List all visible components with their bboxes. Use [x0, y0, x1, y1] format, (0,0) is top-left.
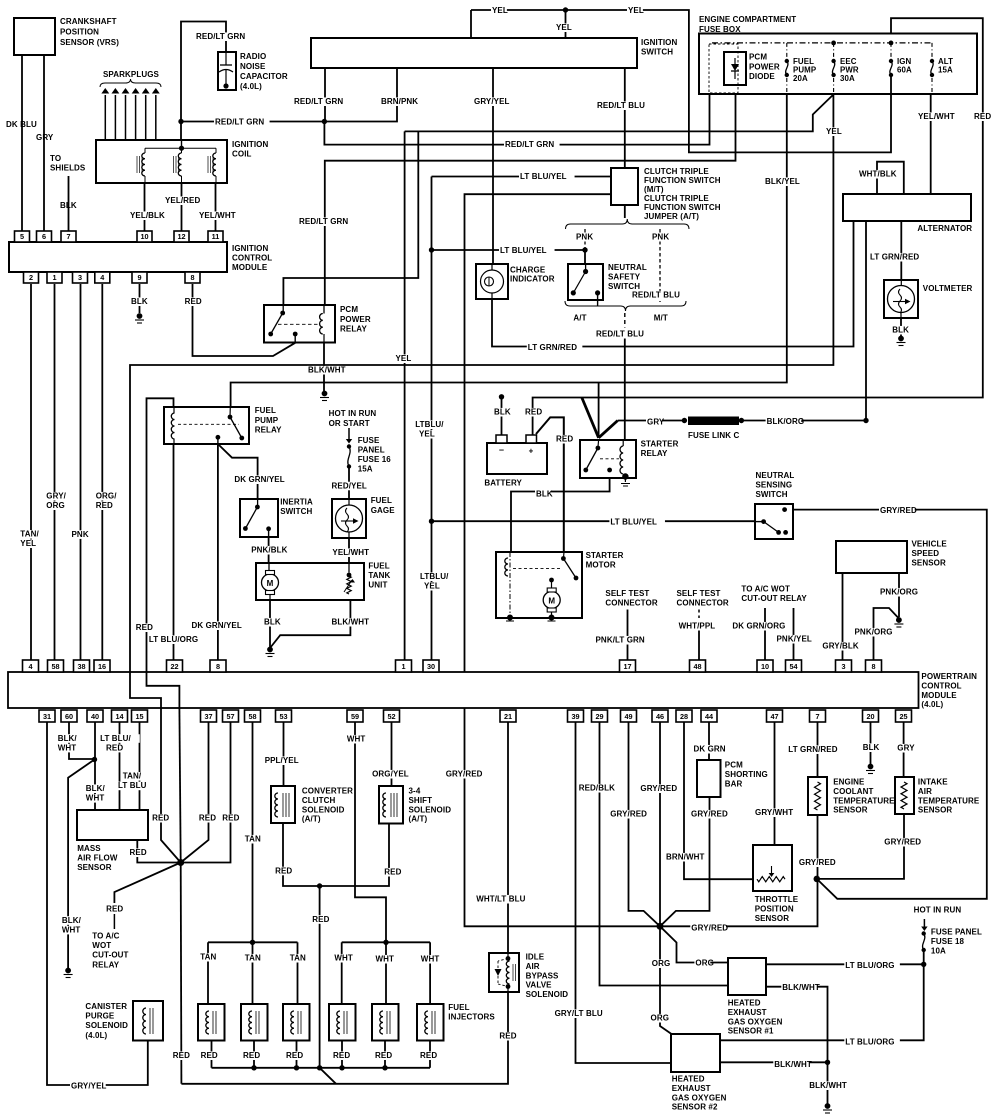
svg-text:YEL: YEL	[20, 539, 36, 548]
svg-text:RELAY: RELAY	[255, 426, 282, 435]
svg-text:RELAY: RELAY	[340, 325, 367, 334]
svg-text:7: 7	[815, 712, 819, 721]
svg-text:GRY/WHT: GRY/WHT	[755, 808, 793, 817]
svg-text:8: 8	[190, 273, 194, 282]
svg-text:49: 49	[624, 712, 632, 721]
svg-text:(4.0L): (4.0L)	[240, 82, 262, 91]
svg-text:COIL: COIL	[232, 150, 252, 159]
svg-text:10A: 10A	[931, 946, 946, 955]
svg-text:GRY/RED: GRY/RED	[640, 784, 677, 793]
svg-text:(A/T): (A/T)	[302, 815, 321, 824]
svg-text:PNK: PNK	[576, 233, 593, 242]
svg-text:SOLENOID: SOLENOID	[526, 990, 569, 999]
svg-text:6: 6	[42, 232, 46, 241]
svg-text:BLK: BLK	[536, 490, 553, 499]
svg-text:SOLENOID: SOLENOID	[85, 1021, 128, 1030]
svg-text:LT GRN/RED: LT GRN/RED	[528, 343, 577, 352]
svg-text:RED: RED	[222, 814, 239, 823]
svg-text:IDLE: IDLE	[526, 953, 545, 962]
svg-text:POSITION: POSITION	[755, 904, 794, 913]
svg-text:SWITCH: SWITCH	[641, 48, 673, 57]
svg-text:TO A/C WOT: TO A/C WOT	[741, 585, 790, 594]
svg-text:ORG: ORG	[46, 501, 65, 510]
svg-text:PNK: PNK	[72, 530, 89, 539]
svg-text:37: 37	[204, 712, 212, 721]
svg-text:M: M	[548, 596, 555, 605]
svg-text:ENGINE: ENGINE	[833, 778, 865, 787]
svg-text:AIR FLOW: AIR FLOW	[77, 853, 118, 862]
svg-text:VOLTMETER: VOLTMETER	[923, 284, 973, 293]
svg-text:7: 7	[66, 232, 70, 241]
svg-text:LT BLU: LT BLU	[118, 781, 147, 790]
svg-text:RED/LT BLU: RED/LT BLU	[596, 330, 644, 339]
svg-text:3-4: 3-4	[409, 787, 421, 796]
svg-text:BLK/: BLK/	[62, 916, 82, 925]
svg-text:17: 17	[623, 662, 631, 671]
svg-text:NEUTRAL: NEUTRAL	[756, 471, 795, 480]
svg-text:ORG: ORG	[652, 959, 671, 968]
svg-text:22: 22	[170, 662, 178, 671]
svg-text:RED: RED	[384, 868, 401, 877]
svg-text:2: 2	[29, 273, 33, 282]
svg-text:FUNCTION SWITCH: FUNCTION SWITCH	[644, 176, 721, 185]
svg-text:SENSOR: SENSOR	[912, 559, 947, 568]
svg-text:RED: RED	[201, 1051, 218, 1060]
svg-text:SELF TEST: SELF TEST	[605, 589, 649, 598]
svg-text:SENSOR #2: SENSOR #2	[672, 1103, 718, 1112]
svg-text:3: 3	[841, 662, 845, 671]
svg-text:LT BLU/: LT BLU/	[100, 734, 131, 743]
svg-text:SOLENOID: SOLENOID	[409, 805, 452, 814]
svg-text:RED: RED	[173, 1051, 190, 1060]
svg-text:SHORTING: SHORTING	[725, 770, 768, 779]
svg-text:BLK: BLK	[494, 408, 511, 417]
svg-text:M: M	[267, 579, 274, 588]
svg-text:LT BLU/YEL: LT BLU/YEL	[520, 172, 567, 181]
svg-text:15: 15	[135, 712, 143, 721]
svg-text:SAFETY: SAFETY	[608, 273, 641, 282]
svg-text:GRY/RED: GRY/RED	[610, 810, 647, 819]
svg-text:TAN: TAN	[245, 835, 261, 844]
svg-text:PCM: PCM	[340, 305, 358, 314]
svg-text:9: 9	[137, 273, 141, 282]
svg-text:YEL: YEL	[419, 430, 435, 439]
svg-text:YEL/WHT: YEL/WHT	[199, 211, 236, 220]
svg-text:52: 52	[387, 712, 395, 721]
svg-text:RELAY: RELAY	[92, 960, 119, 969]
svg-text:PURGE: PURGE	[85, 1012, 115, 1021]
svg-text:20: 20	[866, 712, 874, 721]
svg-text:RED: RED	[275, 866, 292, 875]
svg-text:BLK/YEL: BLK/YEL	[765, 177, 800, 186]
svg-text:RED: RED	[286, 1051, 303, 1060]
svg-text:BLK/ORG: BLK/ORG	[767, 417, 805, 426]
svg-text:DK GRN/YEL: DK GRN/YEL	[234, 475, 284, 484]
svg-text:CONTROL: CONTROL	[232, 254, 272, 263]
svg-text:SENSING: SENSING	[756, 481, 793, 490]
svg-text:BLK/: BLK/	[58, 734, 78, 743]
svg-text:VEHICLE: VEHICLE	[912, 540, 948, 549]
svg-text:RED: RED	[333, 1051, 350, 1060]
svg-text:3: 3	[78, 273, 82, 282]
svg-text:54: 54	[789, 662, 798, 671]
svg-text:RED/LT GRN: RED/LT GRN	[505, 140, 554, 149]
svg-text:RED: RED	[556, 435, 573, 444]
svg-text:BLK: BLK	[863, 743, 880, 752]
svg-text:–: –	[499, 445, 504, 455]
svg-text:WHT: WHT	[62, 925, 81, 934]
svg-text:CLUTCH: CLUTCH	[302, 796, 336, 805]
svg-text:CUT-OUT: CUT-OUT	[92, 951, 128, 960]
svg-text:YEL/WHT: YEL/WHT	[332, 548, 369, 557]
svg-text:ALTERNATOR: ALTERNATOR	[917, 224, 972, 233]
svg-text:GRY/LT BLU: GRY/LT BLU	[555, 1009, 603, 1018]
svg-text:RED: RED	[152, 814, 169, 823]
svg-text:BLK: BLK	[60, 201, 77, 210]
svg-text:10: 10	[140, 232, 148, 241]
svg-text:20A: 20A	[793, 74, 808, 83]
svg-text:53: 53	[279, 712, 287, 721]
svg-text:GRY/YEL: GRY/YEL	[474, 97, 510, 106]
svg-text:SENSOR: SENSOR	[918, 806, 953, 815]
svg-text:CONTROL: CONTROL	[921, 681, 961, 690]
svg-text:LTBLU/: LTBLU/	[415, 420, 444, 429]
svg-text:TAN: TAN	[290, 954, 306, 963]
svg-text:IGNITION: IGNITION	[641, 38, 677, 47]
svg-text:POWER: POWER	[340, 315, 371, 324]
svg-text:CAPACITOR: CAPACITOR	[240, 72, 288, 81]
svg-text:SHIELDS: SHIELDS	[50, 164, 86, 173]
svg-text:WHT/LT BLU: WHT/LT BLU	[476, 895, 525, 904]
svg-text:PNK/LT GRN: PNK/LT GRN	[596, 636, 645, 645]
svg-text:THROTTLE: THROTTLE	[755, 895, 799, 904]
svg-text:28: 28	[680, 712, 688, 721]
svg-text:CONNECTOR: CONNECTOR	[677, 598, 729, 607]
svg-text:40: 40	[91, 712, 99, 721]
svg-text:58: 58	[248, 712, 256, 721]
svg-text:RED: RED	[199, 814, 216, 823]
svg-text:WHT: WHT	[376, 955, 395, 964]
svg-text:BLK: BLK	[131, 297, 148, 306]
svg-text:BYPASS: BYPASS	[526, 971, 559, 980]
svg-text:LT BLU/YEL: LT BLU/YEL	[610, 518, 657, 527]
svg-text:WOT: WOT	[92, 941, 111, 950]
svg-text:SENSOR: SENSOR	[833, 806, 868, 815]
svg-text:PANEL: PANEL	[358, 446, 385, 455]
svg-text:MASS: MASS	[77, 844, 101, 853]
svg-text:SENSOR: SENSOR	[77, 863, 112, 872]
svg-text:M/T: M/T	[654, 314, 668, 323]
svg-text:COOLANT: COOLANT	[833, 787, 873, 796]
svg-text:EXHAUST: EXHAUST	[672, 1084, 711, 1093]
svg-text:POWERTRAIN: POWERTRAIN	[921, 672, 977, 681]
svg-text:CLUTCH TRIPLE: CLUTCH TRIPLE	[644, 167, 709, 176]
svg-text:GRY/RED: GRY/RED	[884, 838, 921, 847]
svg-text:YEL: YEL	[492, 6, 508, 15]
svg-text:NEUTRAL: NEUTRAL	[608, 263, 647, 272]
svg-text:MODULE: MODULE	[921, 691, 957, 700]
svg-text:DK BLU: DK BLU	[6, 120, 37, 129]
svg-text:BLK/WHT: BLK/WHT	[332, 618, 370, 627]
svg-text:GRY/RED: GRY/RED	[799, 858, 836, 867]
svg-text:EXHAUST: EXHAUST	[728, 1008, 767, 1017]
svg-text:PNK/BLK: PNK/BLK	[251, 546, 287, 555]
svg-text:10: 10	[761, 662, 769, 671]
svg-text:YEL/RED: YEL/RED	[165, 196, 200, 205]
svg-text:LT GRN/RED: LT GRN/RED	[870, 253, 919, 262]
svg-text:FUEL: FUEL	[368, 561, 389, 570]
svg-text:LT BLU/ORG: LT BLU/ORG	[845, 1038, 894, 1047]
svg-text:+: +	[529, 447, 534, 456]
svg-text:57: 57	[226, 712, 234, 721]
svg-text:1: 1	[52, 273, 56, 282]
svg-text:GRY/: GRY/	[46, 492, 66, 501]
svg-text:FUEL: FUEL	[255, 406, 276, 415]
svg-text:HEATED: HEATED	[728, 999, 761, 1008]
svg-text:RED: RED	[375, 1051, 392, 1060]
svg-text:TAN: TAN	[200, 953, 216, 962]
svg-text:INDICATOR: INDICATOR	[510, 275, 555, 284]
svg-text:SENSOR (VRS): SENSOR (VRS)	[60, 38, 119, 47]
svg-text:INERTIA: INERTIA	[280, 498, 313, 507]
svg-text:RELAY: RELAY	[641, 449, 668, 458]
svg-text:TANK: TANK	[368, 571, 390, 580]
svg-text:WHT: WHT	[86, 794, 105, 803]
svg-text:NOISE: NOISE	[240, 62, 266, 71]
svg-text:RED: RED	[974, 112, 991, 121]
svg-text:BLK: BLK	[264, 618, 281, 627]
svg-text:YEL/WHT: YEL/WHT	[918, 112, 955, 121]
svg-text:PNK/ORG: PNK/ORG	[880, 588, 918, 597]
svg-text:YEL: YEL	[826, 127, 842, 136]
svg-text:(M/T): (M/T)	[644, 185, 664, 194]
svg-text:29: 29	[595, 712, 603, 721]
svg-text:YEL: YEL	[424, 582, 440, 591]
svg-text:ORG/YEL: ORG/YEL	[372, 770, 409, 779]
svg-text:CANISTER: CANISTER	[85, 1002, 127, 1011]
svg-text:SPEED: SPEED	[912, 549, 940, 558]
svg-text:GRY: GRY	[897, 744, 915, 753]
svg-text:CONNECTOR: CONNECTOR	[605, 598, 657, 607]
svg-text:FUSE 16: FUSE 16	[358, 455, 392, 464]
svg-text:39: 39	[571, 712, 579, 721]
svg-text:TEMPERATURE: TEMPERATURE	[833, 796, 895, 805]
svg-text:OR START: OR START	[329, 419, 370, 428]
svg-text:14: 14	[115, 712, 124, 721]
svg-text:FUSE PANEL: FUSE PANEL	[931, 928, 982, 937]
svg-text:WHT: WHT	[347, 735, 366, 744]
svg-text:RED: RED	[525, 408, 542, 417]
svg-text:LTBLU/: LTBLU/	[420, 572, 449, 581]
svg-text:STARTER: STARTER	[641, 440, 679, 449]
svg-text:(A/T): (A/T)	[409, 815, 428, 824]
svg-text:GRY/YEL: GRY/YEL	[71, 1082, 107, 1091]
svg-text:31: 31	[43, 712, 51, 721]
svg-text:A/T: A/T	[573, 314, 586, 323]
svg-text:15A: 15A	[358, 465, 373, 474]
svg-text:RED/YEL: RED/YEL	[332, 481, 367, 490]
svg-text:GRY/RED: GRY/RED	[691, 810, 728, 819]
svg-text:PNK/YEL: PNK/YEL	[777, 635, 812, 644]
svg-text:8: 8	[871, 662, 875, 671]
svg-text:RED/LT GRN: RED/LT GRN	[215, 118, 264, 127]
svg-text:CONVERTER: CONVERTER	[302, 787, 353, 796]
svg-text:FUEL: FUEL	[371, 496, 392, 505]
svg-text:PCM: PCM	[725, 761, 743, 770]
svg-text:HOT IN RUN: HOT IN RUN	[329, 409, 377, 418]
svg-text:RED: RED	[185, 297, 202, 306]
svg-text:CRANKSHAFT: CRANKSHAFT	[60, 17, 117, 26]
svg-text:CHARGE: CHARGE	[510, 266, 546, 275]
svg-text:PNK: PNK	[652, 233, 669, 242]
svg-text:WHT/PPL: WHT/PPL	[679, 622, 716, 631]
svg-text:RED/LT GRN: RED/LT GRN	[294, 97, 343, 106]
svg-text:POSITION: POSITION	[60, 28, 99, 37]
svg-text:GRY/RED: GRY/RED	[880, 506, 917, 515]
svg-text:BLK/WHT: BLK/WHT	[774, 1060, 812, 1069]
svg-text:IGNITION: IGNITION	[232, 140, 268, 149]
svg-text:MOTOR: MOTOR	[586, 561, 616, 570]
svg-text:AIR: AIR	[918, 787, 932, 796]
svg-text:GAS OXYGEN: GAS OXYGEN	[672, 1093, 727, 1102]
svg-text:YEL: YEL	[556, 23, 572, 32]
svg-text:GRY/RED: GRY/RED	[446, 770, 483, 779]
svg-text:SPARKPLUGS: SPARKPLUGS	[103, 70, 160, 79]
svg-text:RED: RED	[106, 743, 123, 752]
svg-text:RADIO: RADIO	[240, 52, 266, 61]
svg-text:TAN/: TAN/	[20, 530, 39, 539]
svg-text:46: 46	[656, 712, 664, 721]
svg-text:59: 59	[351, 712, 359, 721]
svg-text:GRY/BLK: GRY/BLK	[822, 642, 859, 651]
svg-text:GRY: GRY	[36, 133, 54, 142]
svg-text:JUMPER (A/T): JUMPER (A/T)	[644, 212, 699, 221]
svg-text:PPL/YEL: PPL/YEL	[265, 756, 299, 765]
svg-text:60A: 60A	[897, 66, 912, 75]
svg-text:RED: RED	[136, 623, 153, 632]
svg-text:CUT-OUT RELAY: CUT-OUT RELAY	[741, 594, 807, 603]
svg-text:BLK: BLK	[892, 326, 909, 335]
svg-text:LT BLU/ORG: LT BLU/ORG	[149, 635, 198, 644]
svg-text:INJECTORS: INJECTORS	[448, 1012, 495, 1021]
svg-text:58: 58	[51, 662, 59, 671]
svg-text:(4.0L): (4.0L)	[921, 700, 943, 709]
svg-text:15A: 15A	[938, 66, 953, 75]
svg-text:TEMPERATURE: TEMPERATURE	[918, 796, 980, 805]
svg-text:DK GRN/YEL: DK GRN/YEL	[192, 621, 242, 630]
svg-text:RED: RED	[312, 915, 329, 924]
svg-text:GRY: GRY	[647, 418, 665, 427]
svg-text:DIODE: DIODE	[749, 72, 775, 81]
svg-text:ORG: ORG	[651, 1014, 670, 1023]
svg-text:VALVE: VALVE	[526, 981, 553, 990]
svg-text:BLK/WHT: BLK/WHT	[308, 366, 346, 375]
svg-text:SENSOR #1: SENSOR #1	[728, 1027, 774, 1036]
svg-text:44: 44	[705, 712, 714, 721]
svg-text:GRY/RED: GRY/RED	[691, 924, 728, 933]
svg-text:TO A/C: TO A/C	[92, 932, 119, 941]
svg-text:POWER: POWER	[749, 62, 780, 71]
svg-text:ORG: ORG	[695, 959, 714, 968]
svg-text:RED: RED	[499, 1032, 516, 1041]
svg-text:LT GRN/RED: LT GRN/RED	[788, 745, 837, 754]
svg-text:SOLENOID: SOLENOID	[302, 805, 345, 814]
svg-text:IGNITION: IGNITION	[232, 244, 268, 253]
svg-text:BRN/WHT: BRN/WHT	[666, 853, 704, 862]
svg-text:1: 1	[401, 662, 405, 671]
svg-text:FUSE: FUSE	[358, 436, 380, 445]
svg-text:STARTER: STARTER	[586, 551, 624, 560]
svg-text:SELF TEST: SELF TEST	[677, 589, 721, 598]
svg-text:RED: RED	[243, 1051, 260, 1060]
svg-text:RED/LT GRN: RED/LT GRN	[299, 217, 348, 226]
svg-text:RED: RED	[130, 848, 147, 857]
svg-text:ORG/: ORG/	[96, 492, 118, 501]
svg-text:RED/LT BLU: RED/LT BLU	[632, 291, 680, 300]
svg-text:RED: RED	[420, 1051, 437, 1060]
svg-text:TAN: TAN	[245, 954, 261, 963]
svg-text:WHT: WHT	[334, 954, 353, 963]
svg-text:MODULE: MODULE	[232, 263, 268, 272]
svg-text:RED/LT BLU: RED/LT BLU	[597, 101, 645, 110]
svg-text:YEL/BLK: YEL/BLK	[130, 211, 165, 220]
svg-text:8: 8	[216, 662, 220, 671]
svg-text:16: 16	[98, 662, 106, 671]
svg-text:SWITCH: SWITCH	[756, 490, 788, 499]
svg-text:UNIT: UNIT	[368, 580, 387, 589]
svg-text:TAN/: TAN/	[123, 772, 142, 781]
svg-text:RED: RED	[106, 905, 123, 914]
svg-text:BLK/WHT: BLK/WHT	[809, 1081, 847, 1090]
svg-text:11: 11	[212, 232, 220, 241]
svg-text:30A: 30A	[840, 74, 855, 83]
svg-text:RED: RED	[96, 501, 113, 510]
svg-text:5: 5	[20, 232, 24, 241]
svg-text:INTAKE: INTAKE	[918, 778, 948, 787]
svg-text:WHT/BLK: WHT/BLK	[859, 170, 897, 179]
svg-text:25: 25	[899, 712, 907, 721]
svg-text:FUSE BOX: FUSE BOX	[699, 25, 741, 34]
svg-text:21: 21	[504, 712, 512, 721]
svg-text:BLK/WHT: BLK/WHT	[782, 983, 820, 992]
svg-text:47: 47	[770, 712, 778, 721]
svg-text:WHT: WHT	[421, 955, 440, 964]
svg-text:BATTERY: BATTERY	[484, 479, 522, 488]
svg-text:RED/LT GRN: RED/LT GRN	[196, 32, 245, 41]
svg-text:PCM: PCM	[749, 53, 767, 62]
svg-text:YEL: YEL	[628, 6, 644, 15]
svg-text:48: 48	[693, 662, 701, 671]
svg-text:ENGINE COMPARTMENT: ENGINE COMPARTMENT	[699, 15, 796, 24]
svg-text:30: 30	[427, 662, 435, 671]
svg-text:AIR: AIR	[526, 962, 540, 971]
svg-text:HEATED: HEATED	[672, 1075, 705, 1084]
svg-text:BAR: BAR	[725, 779, 743, 788]
svg-text:SWITCH: SWITCH	[280, 507, 312, 516]
svg-text:BRN/PNK: BRN/PNK	[381, 97, 418, 106]
svg-text:LT BLU/YEL: LT BLU/YEL	[500, 246, 547, 255]
svg-text:PUMP: PUMP	[255, 416, 279, 425]
svg-text:DK GRN/ORG: DK GRN/ORG	[732, 622, 785, 631]
svg-text:RED/BLK: RED/BLK	[579, 784, 615, 793]
svg-text:(4.0L): (4.0L)	[85, 1031, 107, 1040]
svg-text:HOT IN RUN: HOT IN RUN	[914, 906, 962, 915]
svg-text:38: 38	[77, 662, 85, 671]
svg-text:GAS OXYGEN: GAS OXYGEN	[728, 1017, 783, 1026]
svg-text:DK GRN: DK GRN	[694, 745, 726, 754]
svg-text:PNK/ORG: PNK/ORG	[855, 628, 893, 637]
svg-text:FUSE 18: FUSE 18	[931, 937, 965, 946]
